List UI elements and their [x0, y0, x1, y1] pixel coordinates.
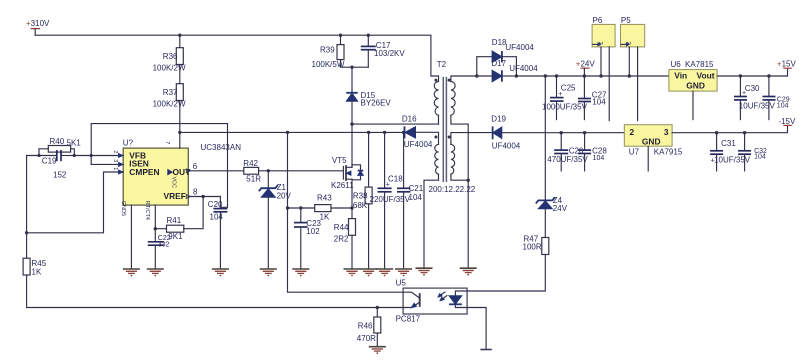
capacitor C20 — [208, 197, 228, 269]
capacitor C26 — [547, 133, 588, 171]
pin 7 VCC stub — [179, 132, 181, 148]
resistor R40 — [39, 137, 81, 155]
resistor R39 — [312, 45, 345, 69]
wire VCC to opto collector drop — [288, 132, 404, 292]
wire R45 bottom to feedback bus — [27, 275, 404, 308]
node junction rail/Z4 — [544, 74, 547, 77]
node junction C19 left — [37, 154, 40, 157]
node polarity dot primary — [434, 79, 437, 82]
node junction CMPEN/R45 — [25, 231, 28, 234]
ground C23 — [292, 269, 309, 276]
wire P6 pin right — [608, 47, 610, 121]
svg-text:U6: U6 — [671, 60, 682, 69]
svg-text:5K1: 5K1 — [67, 139, 82, 148]
node junction C23 top — [299, 206, 302, 209]
svg-text:R38: R38 — [353, 192, 368, 201]
svg-text:R44: R44 — [334, 223, 349, 232]
node junction VCC/R37 — [178, 131, 181, 134]
svg-text:104: 104 — [593, 155, 605, 162]
capacitor C23 — [294, 208, 322, 268]
svg-text:100K/2W: 100K/2W — [153, 64, 186, 73]
node junction R43 tap — [286, 206, 289, 209]
wire primary winding top lead — [438, 76, 440, 82]
wire P5 pin left — [628, 47, 630, 76]
svg-text:104: 104 — [210, 212, 224, 221]
svg-text:R40: R40 — [50, 137, 65, 146]
node junction VCC/R38 — [367, 131, 370, 134]
capacitor C19 — [27, 150, 75, 179]
diode D16 — [402, 114, 433, 149]
wire U6 GND stub — [692, 91, 694, 120]
svg-text:VT5: VT5 — [332, 156, 347, 165]
svg-text:C31: C31 — [721, 139, 736, 148]
pin 3 ISEN wire — [91, 163, 123, 165]
svg-text:2: 2 — [630, 127, 635, 137]
wire C17 bottom to clamp node — [352, 66, 368, 68]
svg-text:GND5: GND5 — [120, 201, 126, 216]
connector P5 — [621, 16, 645, 47]
node junction rail/C27 — [583, 74, 586, 77]
svg-text:R43: R43 — [317, 193, 332, 202]
node junction feedback bus/R46 — [376, 306, 379, 309]
node junction rail/P5 — [628, 74, 631, 77]
svg-text:UF4004: UF4004 — [505, 43, 534, 52]
node junction rail/C17 — [367, 34, 370, 37]
ground C20 — [212, 269, 229, 276]
transformer T2 secondary winding upper — [451, 82, 455, 116]
wire secondary upper bottom lead to ground — [451, 115, 468, 267]
svg-text:C18: C18 — [388, 174, 403, 183]
svg-text:UF4004: UF4004 — [404, 140, 433, 149]
svg-text:R39: R39 — [320, 46, 335, 55]
op-amp U5 PC817 optocoupler — [396, 279, 468, 324]
svg-text:C20: C20 — [208, 200, 223, 209]
connector P6 — [592, 16, 615, 47]
node polarity dot secondary lower — [448, 136, 451, 139]
wire VT5 source — [351, 179, 353, 218]
svg-text:10UF/35V: 10UF/35V — [739, 102, 776, 111]
svg-text:UF4004: UF4004 — [492, 141, 521, 150]
wire P6 pin left — [600, 47, 602, 76]
ground Z1 — [260, 269, 277, 276]
ground C18 — [376, 269, 393, 276]
node junction D17/D18 cathode — [515, 74, 518, 77]
diode D15 — [346, 67, 391, 124]
node junction pin4/R41/C22 — [154, 227, 157, 230]
ground R38 — [360, 269, 377, 276]
node junction rail/C31 — [715, 131, 718, 134]
wire U5 light arrows — [438, 292, 447, 301]
capacitor C30 — [734, 76, 775, 120]
svg-text:GND: GND — [686, 81, 705, 91]
capacitor C22 — [148, 235, 171, 268]
diode D18 — [492, 38, 535, 62]
svg-text:100K/5W: 100K/5W — [312, 60, 345, 69]
wire secondary lower bottom lead — [451, 174, 468, 180]
svg-text:104: 104 — [754, 153, 766, 160]
op-amp U? UC3843AN controller box — [123, 139, 241, 206]
node junction -15V rail/C28 — [583, 131, 586, 134]
wire R47 to opto LED anode — [467, 255, 545, 292]
node junction rail/R36 — [178, 34, 181, 37]
svg-text:P6: P6 — [593, 16, 603, 25]
pin 8 tick — [186, 195, 190, 199]
svg-text:470R: 470R — [357, 334, 376, 343]
svg-text:VCC: VCC — [170, 177, 176, 189]
svg-text:104: 104 — [409, 193, 423, 202]
pin 1 CMPEN wire — [27, 172, 124, 233]
svg-text:Vout: Vout — [697, 71, 715, 81]
node junction rail/C32 — [743, 131, 746, 134]
wire R36-R37 — [179, 65, 181, 84]
resistor R45 — [23, 258, 47, 276]
wire D18 branch — [477, 57, 492, 76]
svg-text:VREF: VREF — [164, 191, 186, 201]
ground C21 — [395, 269, 412, 276]
transformer T2 secondary winding lower — [451, 144, 455, 174]
svg-text:3: 3 — [112, 159, 118, 162]
pin 5 GND stub — [130, 205, 132, 268]
resistor R44 — [334, 219, 356, 244]
svg-text:2: 2 — [112, 150, 118, 153]
node LED return terminal bar — [480, 349, 491, 351]
resistor R38 — [353, 132, 372, 268]
svg-text:R36: R36 — [163, 52, 178, 61]
diode D19 — [491, 115, 521, 151]
svg-text:CMPEN: CMPEN — [129, 167, 159, 177]
wire U5 LED cathode return — [467, 308, 486, 350]
diode U5 LED — [449, 291, 467, 308]
wire U6 Vout to +15V — [717, 69, 787, 76]
svg-text:3: 3 — [664, 127, 669, 137]
svg-text:P5: P5 — [621, 16, 631, 25]
node clamp junction — [350, 66, 353, 69]
node junction rail/C30 — [739, 74, 742, 77]
svg-text:6: 6 — [193, 162, 198, 171]
svg-text:R41: R41 — [167, 216, 182, 225]
node junction rail/C25 — [555, 74, 558, 77]
node junction D17/D18 anode — [475, 74, 478, 77]
wire D19 anode to -15V rail — [502, 132, 625, 134]
pin 1 tick — [119, 170, 123, 174]
svg-text:8: 8 — [193, 188, 198, 197]
transformer T2 primary winding — [434, 82, 438, 116]
svg-text:C21: C21 — [409, 184, 424, 193]
wire P5 pin right — [637, 47, 639, 121]
svg-text:2: 2 — [597, 42, 603, 45]
wire D18 cathode branch down — [502, 57, 517, 76]
svg-text:D16: D16 — [402, 114, 417, 123]
svg-text:PC817: PC817 — [396, 315, 421, 324]
svg-text:2: 2 — [625, 42, 631, 45]
ground secondary — [460, 268, 477, 275]
node junction rail/C29 — [767, 74, 770, 77]
svg-text:KA7815: KA7815 — [685, 60, 714, 69]
svg-text:D19: D19 — [491, 115, 506, 124]
resistor R43 — [288, 193, 353, 221]
resistor R36 — [153, 48, 186, 73]
wire D17 main run — [477, 75, 492, 77]
node junction rail/R39 — [339, 34, 342, 37]
svg-text:1: 1 — [112, 167, 118, 170]
wire D17 cathode to +24V — [502, 75, 517, 77]
wire secondary upper top lead — [451, 76, 477, 82]
node polarity dot aux — [434, 136, 437, 139]
node junction rail/P6 — [599, 74, 602, 77]
transformer T2 aux winding — [435, 144, 439, 174]
wire R39 top lead — [340, 35, 342, 44]
svg-text:T2: T2 — [437, 60, 447, 69]
transistor VT5 K2611 mosfet — [331, 156, 363, 190]
wire R37 bottom to VCC node — [179, 101, 181, 133]
ground pin5 — [123, 269, 140, 276]
svg-text:K2611: K2611 — [331, 181, 354, 190]
svg-text:UF4004: UF4004 — [509, 64, 538, 73]
svg-text:KA7915: KA7915 — [654, 148, 683, 157]
svg-text:R42: R42 — [243, 159, 258, 168]
ground R44 — [344, 269, 361, 276]
svg-text:+310V: +310V — [26, 19, 50, 28]
node junction gate/Z1 — [267, 169, 270, 172]
svg-text:GND: GND — [642, 137, 661, 147]
resistor R42 — [243, 159, 261, 183]
transformer T2 core — [437, 60, 447, 182]
resistor R46 — [357, 308, 381, 347]
svg-text:24V: 24V — [553, 204, 568, 213]
svg-text:C30: C30 — [745, 84, 760, 93]
svg-text:100R: 100R — [523, 243, 542, 252]
node junction VCC/C21 — [402, 131, 405, 134]
node polarity dot secondary upper — [448, 79, 451, 82]
pin 3 tick — [119, 163, 123, 167]
pin 8 VREF wire — [188, 196, 220, 198]
pin 2 tick — [119, 154, 123, 158]
svg-text:1000UF/35V: 1000UF/35V — [542, 102, 588, 111]
node junction C19 right — [73, 154, 76, 157]
capacitor C29 — [763, 76, 790, 120]
node +15V power label — [777, 59, 797, 68]
svg-text:C19: C19 — [42, 156, 57, 165]
node junction VCC/opto pullup — [286, 131, 289, 134]
wire R36 top lead — [179, 35, 181, 48]
svg-text:332: 332 — [158, 242, 170, 249]
node junction -15V rail/C26 — [560, 131, 563, 134]
svg-text:104: 104 — [592, 97, 606, 106]
svg-text:UC3843AN: UC3843AN — [201, 143, 242, 152]
node junction VREF/R41 — [201, 195, 204, 198]
svg-text:R37: R37 — [163, 88, 178, 97]
node +310V power port — [26, 19, 50, 35]
svg-text:20V: 20V — [277, 191, 292, 200]
resistor R47 — [523, 234, 549, 254]
op-amp U6 KA7815 regulator box — [669, 60, 717, 91]
svg-text:U5: U5 — [396, 279, 407, 288]
node junction secondary lower bottom — [467, 179, 470, 182]
node -15V power label — [778, 117, 796, 126]
capacitor C25 — [542, 76, 588, 120]
wire R39 bottom to clamp node — [341, 60, 353, 68]
capacitor C17 — [361, 35, 406, 67]
resistor R37 — [153, 84, 186, 109]
wire secondary lower top lead to D19 — [451, 133, 493, 145]
wire D16 anode to aux winding — [416, 132, 439, 144]
diode D17 — [491, 59, 538, 82]
svg-text:U?: U? — [123, 139, 134, 148]
svg-text:9K1: 9K1 — [168, 232, 183, 241]
capacitor C28 — [578, 133, 607, 171]
svg-text:+15V: +15V — [777, 59, 797, 68]
svg-text:Vin: Vin — [674, 71, 687, 81]
pin 6 OUT wire — [188, 170, 244, 172]
svg-text:100K/2W: 100K/2W — [153, 99, 186, 108]
capacitor C21 — [397, 132, 424, 268]
zener Z1 — [259, 171, 292, 268]
wire primary winding bottom lead — [438, 115, 440, 124]
node +24V power label — [576, 59, 596, 76]
svg-text:7: 7 — [164, 141, 170, 144]
pin 6 tick — [186, 169, 190, 173]
svg-text:1K: 1K — [320, 213, 330, 222]
svg-text:1K: 1K — [32, 267, 42, 276]
svg-text:152: 152 — [53, 170, 67, 179]
wire R42 to VT5 gate — [259, 170, 344, 172]
svg-text:104: 104 — [777, 102, 789, 109]
wire VT5 drain — [351, 124, 353, 167]
svg-text:R46: R46 — [358, 322, 373, 331]
svg-text:470UF/35V: 470UF/35V — [547, 155, 588, 164]
wire VCC rail pin7 to D16 — [180, 131, 405, 133]
capacitor C31 — [710, 133, 751, 171]
ground aux winding — [416, 268, 433, 275]
svg-text:68K: 68K — [353, 201, 368, 210]
ground R46 — [369, 347, 386, 354]
wire +310V rail — [35, 35, 438, 76]
svg-text:C25: C25 — [561, 84, 576, 93]
capacitor C18 — [370, 132, 411, 268]
capacitor C32 — [738, 133, 767, 171]
svg-text:U7: U7 — [629, 148, 640, 157]
wire +24V rail — [516, 75, 669, 77]
node junction source/R43 — [350, 206, 353, 209]
svg-text:220UF/35V: 220UF/35V — [370, 195, 411, 204]
svg-text:RT/CT4: RT/CT4 — [144, 201, 150, 220]
pin 4 RT/CT stub — [154, 205, 156, 241]
wire U7 pin3 to -15V — [672, 125, 787, 132]
zener Z4 — [536, 76, 568, 238]
svg-text:102: 102 — [306, 227, 320, 236]
svg-text:200:12.22.22: 200:12.22.22 — [429, 185, 476, 194]
svg-text:103/2KV: 103/2KV — [374, 49, 405, 58]
transistor U5 phototransistor — [403, 292, 420, 307]
pin 2 VFB wire — [74, 155, 123, 157]
op-amp U7 KA7915 regulator box — [624, 125, 683, 157]
node junction VCC/C18 — [383, 131, 386, 134]
svg-text:2R2: 2R2 — [334, 234, 349, 243]
svg-text:+24V: +24V — [576, 59, 596, 68]
svg-text:+: + — [742, 90, 746, 97]
node drain junction D15/VT5 — [350, 122, 353, 125]
ground pin4/C22 — [147, 269, 164, 276]
resistor R41 — [155, 197, 203, 241]
wire drain node to primary bottom — [352, 123, 439, 125]
capacitor C27 — [578, 76, 607, 120]
wire left node down to R45 — [26, 156, 28, 259]
wire R44 to ground — [351, 235, 353, 268]
node junction VFB/ISEN branch — [90, 154, 93, 157]
wire U7 GND stub — [647, 146, 649, 171]
svg-text:51R: 51R — [246, 175, 261, 184]
wire aux winding bottom lead to ground — [424, 174, 439, 267]
svg-text:10UF/35V: 10UF/35V — [714, 156, 751, 165]
wire VREF feedback top run — [91, 124, 227, 209]
svg-text:BY26EV: BY26EV — [361, 99, 392, 108]
